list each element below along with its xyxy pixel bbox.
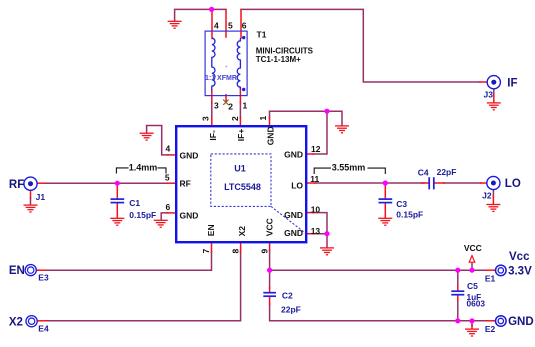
- svg-text:GND: GND: [284, 210, 303, 220]
- svg-text:TC1-1-13M+: TC1-1-13M+: [256, 55, 301, 64]
- svg-text:11: 11: [310, 174, 319, 184]
- svg-text:12: 12: [311, 144, 321, 154]
- svg-text:GND: GND: [284, 150, 303, 160]
- svg-text:1: 1: [258, 116, 268, 121]
- svg-text:C2: C2: [282, 290, 293, 300]
- svg-text:1.4mm: 1.4mm: [129, 162, 158, 172]
- svg-text:GND: GND: [266, 126, 276, 145]
- svg-text:EN: EN: [9, 265, 25, 277]
- svg-text:13: 13: [311, 226, 321, 236]
- svg-text:3.55mm: 3.55mm: [332, 162, 366, 172]
- svg-text:4: 4: [214, 21, 219, 31]
- svg-text:GND: GND: [180, 210, 199, 220]
- svg-text:C3: C3: [396, 199, 407, 209]
- svg-text:GND: GND: [180, 151, 199, 161]
- svg-text:0.15pF: 0.15pF: [396, 210, 423, 220]
- svg-text:C5: C5: [467, 281, 478, 291]
- svg-text:J3: J3: [484, 90, 494, 100]
- svg-text:5: 5: [165, 173, 170, 183]
- svg-text:E2: E2: [485, 324, 496, 334]
- svg-text:C4: C4: [418, 167, 429, 177]
- svg-text:3: 3: [214, 101, 219, 111]
- svg-text:EN: EN: [206, 224, 216, 236]
- svg-text:X2: X2: [237, 226, 247, 237]
- svg-text:X2: X2: [9, 316, 23, 328]
- svg-text:J1: J1: [36, 192, 46, 202]
- svg-text:5: 5: [228, 21, 233, 31]
- svg-text:C1: C1: [129, 198, 140, 208]
- svg-text:E1: E1: [485, 273, 496, 283]
- svg-text:T1: T1: [257, 30, 267, 40]
- svg-text:LO: LO: [505, 178, 521, 190]
- svg-text:VCC: VCC: [464, 243, 482, 253]
- svg-text:0603: 0603: [467, 299, 486, 309]
- svg-text:Vcc: Vcc: [509, 251, 530, 263]
- svg-text:IF+: IF+: [236, 129, 246, 142]
- svg-text:9: 9: [260, 249, 270, 254]
- svg-text:IF-: IF-: [208, 130, 218, 141]
- svg-text:0.15pF: 0.15pF: [129, 210, 156, 220]
- svg-text:2: 2: [228, 102, 233, 112]
- svg-text:J2: J2: [482, 191, 492, 201]
- svg-text:3: 3: [200, 116, 210, 121]
- svg-text:10: 10: [311, 205, 321, 215]
- svg-text:8: 8: [230, 249, 240, 254]
- svg-text:E4: E4: [38, 324, 49, 334]
- svg-text:22pF: 22pF: [281, 305, 301, 315]
- svg-text:4: 4: [166, 144, 171, 154]
- svg-text:1: 1: [243, 101, 248, 111]
- svg-text:RF: RF: [9, 179, 24, 191]
- svg-text:GND: GND: [284, 228, 303, 238]
- svg-text:1:1 XFMR: 1:1 XFMR: [205, 75, 237, 82]
- svg-text:6: 6: [242, 21, 247, 31]
- svg-text:RF: RF: [180, 179, 191, 189]
- svg-text:VCC: VCC: [265, 218, 275, 236]
- svg-text:7: 7: [201, 249, 211, 254]
- svg-text:GND: GND: [508, 316, 534, 328]
- svg-text:3.3V: 3.3V: [508, 266, 532, 278]
- svg-text:LO: LO: [291, 181, 303, 191]
- svg-text:2: 2: [230, 116, 240, 121]
- svg-text:LTC5548: LTC5548: [224, 182, 261, 192]
- svg-text:22pF: 22pF: [437, 167, 457, 177]
- svg-text:U1: U1: [234, 164, 246, 174]
- svg-text:IF: IF: [507, 77, 517, 89]
- svg-text:E3: E3: [38, 273, 49, 283]
- svg-text:6: 6: [166, 202, 171, 212]
